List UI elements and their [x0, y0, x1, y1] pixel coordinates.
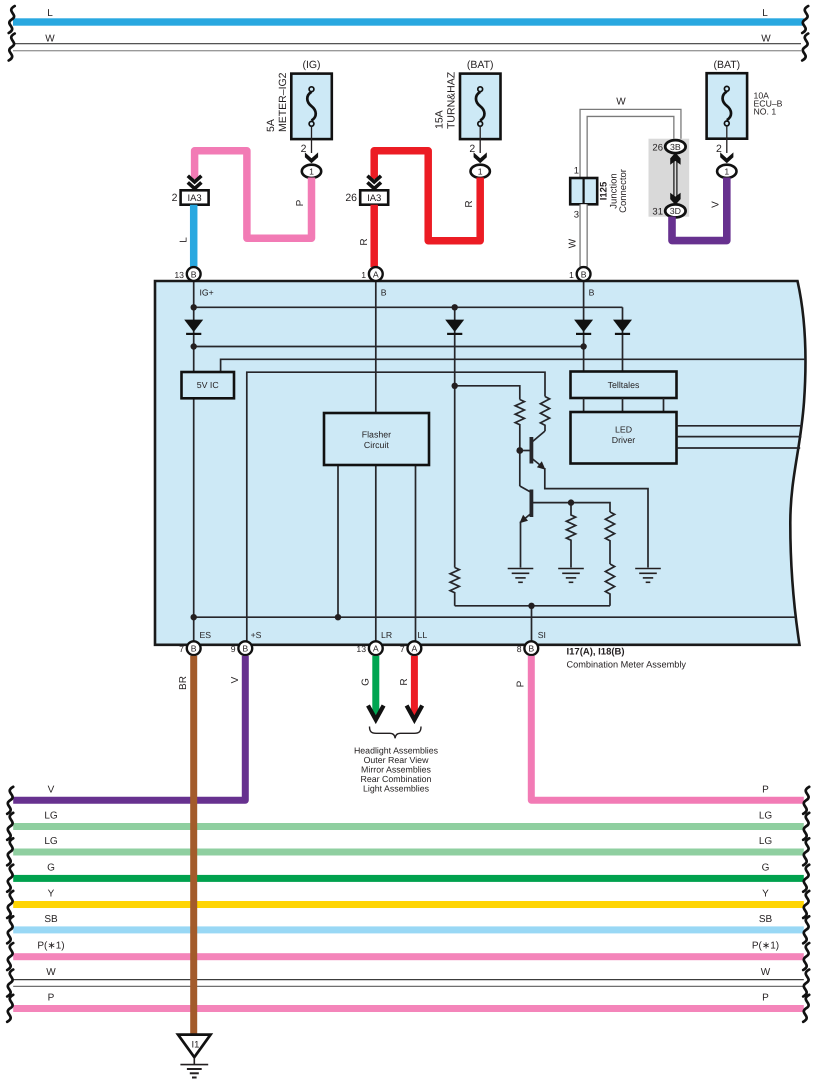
destination text block — [354, 746, 439, 794]
svg-text:P: P — [516, 680, 527, 687]
flasher circuit box — [324, 413, 429, 465]
svg-text:L: L — [179, 237, 190, 243]
label I17(A), I18(B) Combination Meter Assembly — [567, 647, 687, 670]
svg-text:B: B — [528, 644, 534, 654]
svg-text:IA3: IA3 — [367, 193, 381, 204]
svg-text:BR: BR — [178, 676, 189, 690]
svg-text:5V IC: 5V IC — [197, 380, 220, 390]
svg-text:15A: 15A — [434, 110, 446, 129]
svg-text:R: R — [359, 238, 370, 245]
svg-text:B: B — [581, 269, 587, 279]
svg-text:3D: 3D — [670, 206, 681, 216]
fuse F1 5A METER-IG2 — [265, 59, 332, 163]
ground G3 — [635, 569, 661, 583]
svg-text:ES: ES — [200, 630, 212, 640]
fuse F3 10A ECU-B NO.1 — [707, 59, 783, 163]
svg-text:B: B — [191, 269, 197, 279]
ground I1 — [178, 1035, 211, 1078]
svg-text:W: W — [46, 967, 56, 978]
svg-text:26: 26 — [652, 142, 663, 153]
terminal 1(A) — [361, 267, 382, 281]
bus LG row2 — [13, 811, 804, 831]
svg-text:1: 1 — [574, 166, 579, 177]
connector cavity 1 of F3 — [717, 165, 736, 178]
junction dots — [191, 304, 587, 620]
ground G1 (Q2 emitter) — [508, 569, 534, 583]
svg-text:P: P — [762, 785, 769, 796]
svg-text:W: W — [616, 97, 626, 108]
svg-text:METER–IG2: METER–IG2 — [277, 72, 289, 132]
wire V (purple) 3D to F3 — [672, 178, 727, 241]
rail anode y307 — [194, 306, 623, 308]
svg-text:7: 7 — [400, 644, 405, 654]
resistor R3 — [566, 503, 575, 568]
rail bottom y617.2 — [194, 616, 810, 618]
node IG+ vertical — [193, 281, 195, 372]
resistor R5 — [605, 564, 614, 606]
svg-text:A: A — [373, 269, 379, 279]
break symbol right of bus W — [802, 34, 808, 61]
svg-text:G: G — [47, 862, 55, 873]
wire ES vertical — [193, 398, 195, 648]
svg-text:IA3: IA3 — [187, 193, 201, 204]
svg-text:SB: SB — [44, 914, 58, 925]
wire x454.7 — [454, 307, 456, 567]
junction connector I125 — [570, 166, 629, 221]
svg-text:B: B — [191, 644, 197, 654]
svg-text:Combination Meter Assembly: Combination Meter Assembly — [567, 659, 687, 669]
svg-text:SB: SB — [759, 914, 773, 925]
svg-text:G: G — [361, 678, 372, 686]
bus G row4 — [13, 862, 804, 882]
svg-text:P: P — [762, 992, 769, 1003]
resistor R6 — [450, 568, 459, 606]
svg-text:2: 2 — [172, 192, 178, 204]
svg-text:5A: 5A — [265, 119, 277, 132]
ground G2 (R3) — [558, 569, 584, 583]
svg-text:13: 13 — [356, 644, 366, 654]
combination meter box I17/I18 — [155, 281, 805, 645]
terminal 8(B) SI — [517, 641, 538, 655]
connector cavity 1 of F1 — [302, 165, 321, 178]
svg-text:Outer Rear View: Outer Rear View — [364, 755, 430, 765]
svg-text:Rear Combination: Rear Combination — [361, 774, 432, 784]
svg-text:1: 1 — [309, 166, 314, 176]
svg-text:Telltales: Telltales — [608, 380, 640, 390]
bus W (top) — [13, 33, 801, 50]
brace — [370, 727, 422, 739]
wire bottom link y605.8 — [455, 605, 610, 607]
wire R (red) IA3 to meter — [370, 205, 378, 267]
svg-text:R: R — [464, 200, 475, 207]
svg-text:Connector: Connector — [618, 169, 629, 213]
svg-text:NO. 1: NO. 1 — [754, 107, 777, 117]
wire R1 to Q2 — [519, 451, 521, 487]
terminal 7(A) LL — [400, 641, 421, 655]
resistor R4 — [605, 512, 614, 564]
svg-text:W: W — [761, 33, 771, 44]
LED driver box — [571, 412, 677, 464]
svg-text:I17(A), I18(B): I17(A), I18(B) — [567, 647, 625, 658]
diode D2 — [445, 320, 464, 334]
terminal 7(B) ES — [179, 641, 200, 655]
5V IC box — [182, 372, 235, 398]
wire P (pink) SI to bus — [531, 656, 804, 800]
arrow G out — [368, 706, 384, 720]
terminal 9(B) +S — [231, 641, 252, 655]
wire diode branch x622.5 — [622, 307, 624, 371]
svg-text:B: B — [381, 288, 387, 298]
LED driver output wires — [677, 426, 803, 448]
svg-text:1: 1 — [361, 270, 366, 280]
wire R (red) from F2 to IA3 — [374, 151, 480, 241]
svg-text:LG: LG — [44, 811, 58, 822]
diode D4 — [613, 320, 632, 334]
svg-text:A: A — [373, 644, 379, 654]
diode D1 — [184, 320, 203, 334]
wire telltales to LED driver stubs — [584, 398, 664, 412]
svg-text:LR: LR — [381, 630, 392, 640]
terminal 1(B) — [569, 267, 590, 281]
svg-text:L: L — [762, 8, 768, 19]
svg-text:P(∗1): P(∗1) — [37, 941, 64, 952]
svg-text:(BAT): (BAT) — [467, 59, 494, 71]
wire W junction connector to 3B — [584, 97, 678, 180]
node B1 vertical — [375, 281, 377, 413]
svg-text:TURN&HAZ: TURN&HAZ — [446, 71, 458, 129]
bus L (top) — [13, 8, 804, 26]
svg-text:P: P — [295, 199, 306, 206]
svg-text:Flasher: Flasher — [362, 429, 391, 439]
svg-text:Y: Y — [48, 888, 55, 899]
wire R (red) LL out — [411, 656, 418, 718]
break symbol right of bus L — [802, 6, 808, 33]
rail +S y372.2 and R2 feed — [247, 372, 545, 648]
svg-text:Light Assemblies: Light Assemblies — [363, 784, 430, 794]
telltales box — [571, 372, 677, 399]
svg-text:1: 1 — [569, 270, 574, 280]
svg-text:+S: +S — [251, 630, 262, 640]
svg-text:9: 9 — [231, 644, 236, 654]
connector cavity 1 of F2 — [471, 165, 490, 178]
svg-text:LG: LG — [759, 836, 773, 847]
rail cathode y346.5 — [194, 346, 584, 348]
svg-text:R: R — [399, 678, 410, 685]
svg-text:Circuit: Circuit — [364, 440, 389, 450]
transistor Q2 — [519, 486, 610, 523]
svg-text:W: W — [761, 967, 771, 978]
break symbol P bus right — [803, 787, 809, 814]
svg-text:B: B — [242, 644, 248, 654]
flasher outputs — [337, 465, 339, 617]
wire Q1 emitter to ground rail — [545, 468, 648, 568]
wire P (pink) from F1 to IA3 — [195, 151, 312, 238]
svg-text:W: W — [45, 33, 55, 44]
shield connector 3B/3D — [649, 139, 690, 218]
svg-text:V: V — [230, 676, 241, 683]
break symbol left of bus W — [9, 34, 15, 61]
svg-text:SI: SI — [538, 630, 546, 640]
wire y385.8 to R1 — [455, 386, 520, 400]
fuse F2 15A TURN&HAZ — [434, 59, 501, 163]
break symbol V bus — [7, 787, 13, 814]
connector IA3 pin 2 — [172, 176, 209, 205]
bus P(*1) row7 — [13, 941, 804, 961]
wire W I125 to meter — [568, 204, 584, 267]
wire L (blue) IA3 to meter — [190, 205, 198, 267]
bus LG row3 — [13, 836, 804, 856]
svg-text:P: P — [48, 992, 55, 1003]
break symbol left of bus L — [9, 6, 15, 33]
svg-text:13: 13 — [174, 270, 184, 280]
svg-text:LG: LG — [759, 811, 773, 822]
svg-text:Mirror Assemblies: Mirror Assemblies — [361, 765, 431, 775]
svg-text:7: 7 — [179, 644, 184, 654]
svg-text:W: W — [568, 238, 579, 248]
svg-text:1: 1 — [478, 166, 483, 176]
rail 5V y359.3 — [221, 359, 810, 372]
svg-text:Y: Y — [762, 888, 769, 899]
svg-text:26: 26 — [345, 192, 357, 204]
transistor Q1 — [520, 431, 546, 470]
svg-text:Headlight Assemblies: Headlight Assemblies — [354, 746, 439, 756]
arrow R out — [407, 706, 423, 720]
bus SB row6 — [13, 914, 804, 934]
svg-text:L: L — [47, 8, 53, 19]
svg-text:(BAT): (BAT) — [713, 59, 740, 71]
svg-text:V: V — [711, 201, 722, 208]
svg-text:1: 1 — [724, 166, 729, 176]
svg-text:B: B — [589, 288, 595, 298]
wire V (purple) +S to bus — [13, 656, 245, 800]
wire SI vertical — [531, 606, 533, 648]
svg-text:I1: I1 — [192, 1040, 200, 1051]
node B2 vertical — [583, 281, 585, 372]
connector IA3 pin 26 — [345, 176, 388, 205]
resistor R1 — [515, 400, 524, 451]
wire Q2 emitter to ground — [520, 522, 522, 568]
svg-text:3: 3 — [574, 210, 579, 221]
svg-text:3B: 3B — [670, 142, 681, 152]
resistor R2 — [540, 397, 549, 432]
svg-text:LG: LG — [44, 836, 58, 847]
svg-text:(IG): (IG) — [302, 59, 320, 71]
bus Y row5 — [13, 888, 804, 908]
svg-text:P(∗1): P(∗1) — [752, 941, 779, 952]
bus W row8 — [13, 967, 804, 986]
wire G (green) LR out — [372, 656, 379, 718]
svg-text:LL: LL — [418, 630, 428, 640]
svg-text:8: 8 — [517, 644, 522, 654]
wire BR (brown) ES to ground — [190, 656, 197, 1034]
bus P row9 — [13, 992, 804, 1012]
svg-text:LED: LED — [615, 425, 632, 435]
svg-text:A: A — [412, 644, 418, 654]
terminal 13(A) LR — [356, 641, 382, 655]
svg-text:Driver: Driver — [612, 435, 636, 445]
terminal 13(B) — [174, 267, 200, 281]
svg-text:G: G — [762, 862, 770, 873]
diode D3 — [574, 320, 593, 334]
svg-text:31: 31 — [652, 207, 663, 218]
svg-text:IG+: IG+ — [200, 288, 214, 298]
svg-text:V: V — [48, 785, 55, 796]
